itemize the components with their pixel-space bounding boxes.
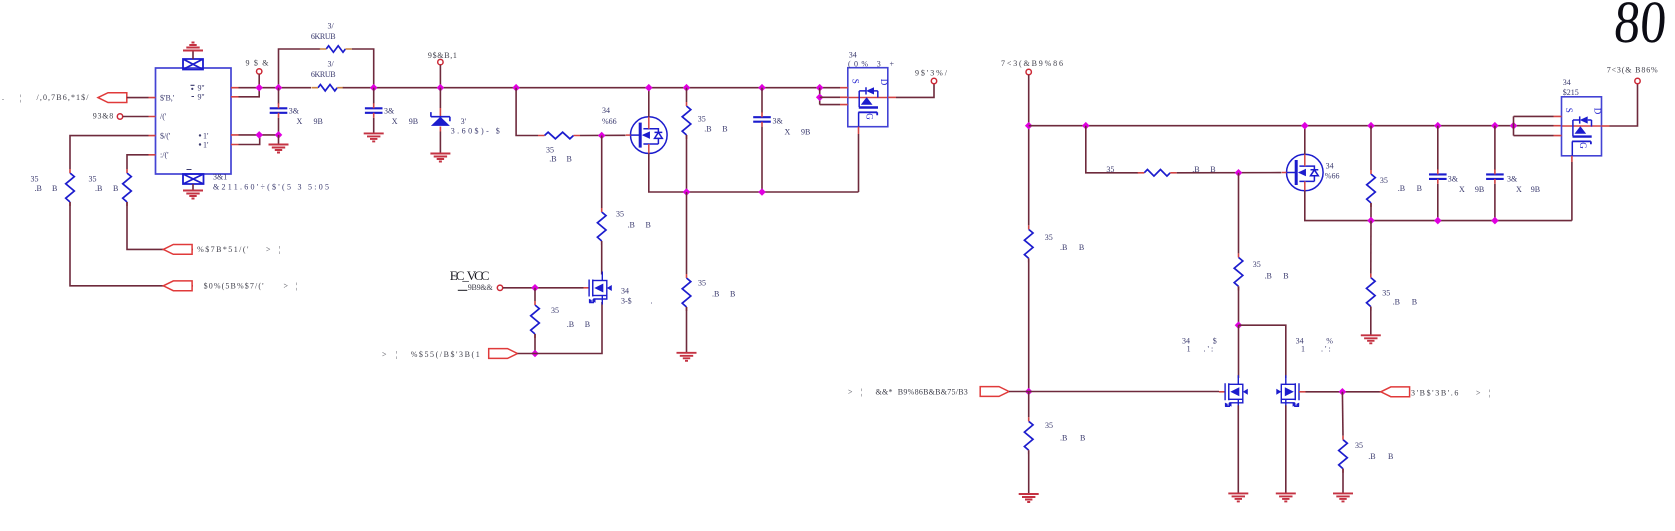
junction: [1367, 122, 1375, 130]
wire gate node down: [1238, 173, 1240, 254]
resistor R1: [66, 173, 75, 202]
MOSFET Q6 (small): [1276, 375, 1299, 408]
ground: [1276, 493, 1296, 501]
svg-text:B: B: [1079, 243, 1084, 252]
svg-text:34: 34: [621, 287, 629, 296]
power MOSFET Q2 (pack): [848, 68, 889, 127]
resistor R11: [1234, 257, 1243, 286]
junction: [1235, 169, 1243, 177]
wire U1 pin row: [239, 134, 279, 136]
svg-text:B9%86B&B&75/B3: B9%86B&B&75/B3: [898, 388, 968, 397]
svg-text:3': 3': [461, 117, 467, 126]
junction: [255, 84, 263, 92]
svg-text:35: 35: [698, 279, 706, 288]
svg-text:B: B: [567, 155, 572, 164]
svg-text:.B: .B: [1265, 271, 1272, 280]
svg-text:¦: ¦: [1489, 389, 1491, 398]
wire D1 to ground: [439, 132, 441, 154]
svg-text:&&*: &&*: [876, 388, 893, 397]
Q2 out pin stub: [888, 96, 896, 98]
svg-text:X: X: [392, 117, 398, 126]
wire Q7 S pin3: [1514, 135, 1554, 137]
wire U1 pin row join: [239, 135, 260, 145]
port arrow (output): [163, 281, 192, 291]
svg-text:1': 1': [203, 140, 209, 149]
wire Q2 S pin3: [820, 104, 840, 106]
resistor R5: [682, 106, 691, 135]
junction: [1367, 217, 1375, 225]
svg-text:.B: .B: [628, 221, 635, 230]
svg-text:93&8: 93&8: [93, 112, 114, 121]
ground: [1361, 335, 1381, 343]
wire R2 to port: [127, 202, 193, 249]
svg-text:3&: 3&: [1448, 175, 1459, 184]
wire Q2 S pin2: [820, 96, 840, 98]
svg-text:35: 35: [1045, 233, 1053, 242]
Q5 gate stub: [1219, 391, 1225, 393]
svg-text:35: 35: [1355, 441, 1363, 450]
svg-text:$0%(5B%$7/(': $0%(5B%$7/(': [204, 282, 265, 291]
junction: [645, 84, 653, 92]
svg-text:/(': /(': [160, 112, 167, 121]
wire to R13: [1370, 221, 1372, 274]
junction: [758, 188, 766, 196]
resistor (series on rail): [318, 85, 337, 91]
resistor R7: [682, 278, 691, 307]
wire to R6: [534, 288, 536, 301]
ground: [1228, 493, 1248, 501]
junction: [1510, 122, 1518, 130]
IC U1 body: [156, 68, 232, 174]
svg-text::/(': :/(': [160, 151, 169, 160]
junction: [1235, 321, 1243, 329]
resistor R10: [1024, 421, 1033, 450]
svg-text:9B: 9B: [409, 117, 418, 126]
power MOSFET Q7 (pack): [1562, 97, 1603, 156]
IC U1 left pin stubs: [149, 98, 156, 155]
wire terminal drop: [439, 65, 441, 88]
junction: [275, 84, 283, 92]
wire Q1 source rail: [649, 153, 859, 192]
wire U1 bottom to ground: [192, 184, 194, 191]
svg-text:X: X: [785, 128, 791, 137]
wire net drop: [1028, 75, 1030, 226]
wire R6 down: [534, 334, 536, 354]
wire to Q6 drain: [1239, 325, 1286, 378]
wire loop down: [352, 49, 374, 88]
svg-text:>: >: [382, 350, 387, 359]
port arrow (input): [489, 349, 518, 359]
svg-text:.B: .B: [35, 184, 42, 193]
svg-text:%66: %66: [1325, 172, 1340, 181]
svg-text:34: 34: [1326, 161, 1334, 170]
junction: [255, 131, 263, 139]
svg-text:34: 34: [602, 106, 610, 115]
wire R11 down: [1238, 286, 1240, 325]
svg-text:>: >: [284, 282, 289, 291]
wire rail to C5: [1494, 126, 1496, 170]
resistor R12: [1367, 174, 1376, 203]
svg-text:.B: .B: [1060, 243, 1067, 252]
junction: [683, 188, 691, 196]
wire to Q5 gate: [1029, 391, 1219, 393]
svg-text:.B: .B: [704, 125, 711, 134]
wire main rail: [343, 87, 840, 89]
power-ground (flipped): [183, 43, 203, 51]
wire C5 down: [1494, 184, 1496, 221]
wire to D1: [439, 88, 441, 108]
resistor R6: [531, 305, 540, 334]
svg-text:7<3(&B9%86: 7<3(&B9%86: [1001, 59, 1063, 68]
svg-text:9B9&&: 9B9&&: [468, 283, 494, 292]
svg-text:G: G: [1578, 142, 1588, 149]
svg-text:1: 1: [1301, 345, 1305, 354]
wire main rail right: [1029, 125, 1554, 127]
wire R4 to Q3 drain: [601, 241, 603, 275]
svg-text:S: S: [1564, 108, 1574, 113]
svg-text:G: G: [864, 113, 874, 120]
svg-text:3&: 3&: [289, 107, 300, 116]
wire C3 down: [761, 127, 763, 192]
wire Q6 source to ground: [1285, 405, 1287, 493]
Q2 mid pin row (red): [848, 97, 888, 99]
svg-text:9B: 9B: [801, 128, 810, 137]
MOSFET Q1: [631, 117, 668, 154]
wire R9 to Q4 gate: [1177, 172, 1282, 174]
Q7 gate stub: [1571, 156, 1573, 162]
svg-text:34: 34: [1563, 78, 1571, 87]
svg-text:35: 35: [1253, 260, 1261, 269]
resistor R8: [1024, 229, 1033, 258]
wire rail to R5: [686, 88, 688, 102]
wire rail to R3: [516, 88, 538, 136]
svg-text:.B: .B: [1368, 452, 1375, 461]
junction: [1491, 122, 1499, 130]
junction: [512, 84, 520, 92]
terminal 93&8: [117, 114, 122, 119]
wire Q7 drain out: [1610, 84, 1638, 126]
svg-text:>: >: [266, 245, 271, 254]
svg-text:1: 1: [1187, 345, 1191, 354]
wire C4 down: [1437, 184, 1439, 221]
terminal 9$'3%/: [931, 78, 936, 83]
wire to ground: [278, 135, 280, 145]
wire R14 to ground: [1342, 469, 1344, 494]
MOSFET Q3 (small): [589, 272, 612, 305]
svg-text:D: D: [879, 79, 889, 86]
resistor R14: [1339, 440, 1348, 469]
wire R7 to ground: [686, 307, 688, 353]
wire main rail: [239, 87, 312, 89]
svg-text:.: .: [2, 93, 4, 102]
svg-text:9B: 9B: [314, 117, 323, 126]
wire U1 pin2 jog to rail: [239, 88, 260, 97]
underline mark: [458, 289, 468, 291]
junction: [1434, 122, 1442, 130]
svg-text:$: $: [1213, 337, 1217, 346]
no-connect box below U1: [183, 174, 204, 184]
IC U1 right pin stubs: [231, 88, 239, 145]
svg-text:3&: 3&: [384, 107, 395, 116]
svg-text:35: 35: [1106, 165, 1114, 174]
wire Q5 source to ground: [1237, 405, 1239, 493]
svg-text:¦: ¦: [279, 245, 281, 254]
wire R10 to ground: [1028, 450, 1030, 494]
svg-text:D: D: [1593, 108, 1603, 115]
svg-text:35: 35: [1380, 176, 1388, 185]
svg-text:¦: ¦: [396, 350, 398, 359]
ground: [430, 154, 450, 162]
junction: [1339, 388, 1347, 396]
wire Q7 source tie: [1513, 116, 1515, 135]
svg-text:3&: 3&: [773, 117, 784, 126]
svg-text:B: B: [1412, 298, 1417, 307]
capacitor C3: [753, 117, 771, 122]
wire U1 pin4 to R2: [127, 155, 149, 169]
svg-text:9$&: 9$&: [246, 58, 270, 67]
resistor R13: [1367, 278, 1376, 307]
wire rail to C3: [761, 88, 763, 113]
wire Q7 S pin1: [1514, 115, 1554, 117]
D1 anode lead tip: [439, 108, 441, 132]
wire R12 down: [1370, 203, 1372, 221]
port arrow (input): [98, 93, 127, 103]
wire Q7 gate down: [1571, 162, 1573, 221]
wire port to node: [1009, 391, 1029, 393]
svg-text:¦: ¦: [296, 282, 298, 291]
wire Q2 drain out: [896, 84, 934, 98]
Q2 gate stub: [858, 127, 860, 134]
wire loop to top resistor: [279, 49, 321, 88]
junction: [816, 84, 824, 92]
svg-text:B: B: [1080, 434, 1085, 443]
wire R5 down: [686, 135, 688, 192]
resistor R9: [1144, 170, 1170, 177]
svg-text:B: B: [646, 221, 651, 230]
svg-text:6KRUB: 6KRUB: [311, 32, 336, 41]
svg-text:3&: 3&: [1507, 175, 1518, 184]
svg-text:$215: $215: [1563, 88, 1579, 97]
wire R13 to ground: [1370, 307, 1372, 336]
svg-text:.: .: [651, 296, 653, 305]
svg-text:.B: .B: [1398, 184, 1405, 193]
wire Q2 gate down: [858, 134, 860, 192]
svg-text:%$7B*51/(': %$7B*51/(': [197, 245, 249, 254]
U1 pin number marks: [187, 85, 195, 169]
svg-text:¦: ¦: [861, 388, 863, 397]
wire EC_VCC to Q3 gate: [503, 287, 584, 289]
ground: [269, 145, 289, 153]
capacitor C1: [270, 108, 288, 113]
svg-text:35: 35: [616, 210, 624, 219]
wire terminal drop: [258, 74, 260, 87]
junction: [1491, 217, 1499, 225]
svg-text:35: 35: [89, 175, 97, 184]
junction: [1025, 122, 1033, 130]
svg-text:.B: .B: [95, 184, 102, 193]
wire rail to Q1 drain: [648, 88, 650, 117]
svg-text:9'': 9'': [198, 83, 205, 92]
svg-text:35: 35: [1382, 289, 1390, 298]
ground: [1019, 494, 1039, 502]
svg-text:35: 35: [31, 175, 39, 184]
Q7 left pin stubs: [1554, 116, 1562, 135]
wire rail to C4: [1437, 126, 1439, 170]
svg-text:$/(': $/(': [160, 131, 171, 140]
junction: [370, 84, 378, 92]
svg-text:B: B: [1417, 184, 1422, 193]
svg-text:B: B: [1388, 452, 1393, 461]
wire R7 top: [686, 192, 688, 274]
svg-text:35: 35: [698, 115, 706, 124]
Q2 left pin stubs: [840, 88, 848, 105]
wire port to Q3 source: [518, 302, 603, 354]
svg-text:X: X: [1516, 185, 1522, 194]
svg-text:$'B,': $'B,': [160, 93, 175, 102]
ground: [364, 133, 384, 141]
junction: [683, 84, 691, 92]
wire C1 to gnd node: [278, 118, 280, 135]
wire to C2: [373, 88, 375, 104]
terminal EC_VCC: [497, 285, 502, 290]
wire rail to R12: [1370, 126, 1372, 170]
wire C2 to ground: [373, 118, 375, 134]
svg-text:. ' :: . ' :: [1204, 345, 1214, 354]
terminal 7<3(& B86%: [1635, 78, 1640, 83]
junction: [598, 132, 606, 140]
wire to R10: [1028, 392, 1030, 418]
zener diode D1: [431, 112, 450, 126]
junction: [816, 94, 824, 102]
wire U1 top to ground: [192, 51, 194, 60]
Q3 gate stub: [584, 287, 590, 289]
junction: [1082, 122, 1090, 130]
port arrow (input): [980, 387, 1009, 397]
terminal 7<3(&B9%86: [1026, 69, 1031, 74]
svg-text:35: 35: [546, 145, 554, 154]
resistor R3: [545, 132, 574, 139]
svg-text:3/: 3/: [328, 22, 335, 31]
svg-text:X: X: [1459, 185, 1465, 194]
wire U1 pin3 to R1: [70, 136, 149, 169]
wire Q6 gate to port: [1306, 391, 1381, 393]
svg-text:9B: 9B: [1475, 185, 1484, 194]
MOSFET Q4: [1287, 154, 1324, 191]
wire to Q5 drain: [1238, 325, 1240, 378]
junction: [275, 131, 283, 139]
junction: [531, 284, 539, 292]
MOSFET Q5 (small): [1225, 375, 1248, 408]
wire terminal to U1 pin2: [123, 116, 149, 118]
svg-text:X: X: [297, 117, 303, 126]
svg-text:3&1: 3&1: [213, 173, 227, 182]
svg-text:.B: .B: [549, 155, 556, 164]
wire to C1: [278, 88, 280, 104]
wire port to U1 pin1: [127, 97, 149, 99]
ground: [677, 353, 697, 361]
wire to R14: [1341, 392, 1344, 436]
svg-text:%$55(/B$'3B(1: %$55(/B$'3B(1: [411, 350, 480, 359]
svg-text:B: B: [585, 320, 590, 329]
svg-text:80: 80: [1612, 0, 1669, 55]
svg-text:%66: %66: [602, 117, 617, 126]
svg-text:B: B: [1283, 271, 1288, 280]
port arrow (output): [163, 245, 192, 255]
svg-text:7<3(& B86%: 7<3(& B86%: [1607, 66, 1658, 75]
wire gate node down: [601, 136, 603, 209]
resistor R4: [597, 212, 606, 241]
svg-text:S: S: [850, 79, 860, 84]
svg-text:.B: .B: [567, 320, 574, 329]
junction: [1301, 122, 1309, 130]
wire R8 down: [1028, 258, 1030, 391]
junction: [1434, 217, 1442, 225]
junction: [437, 84, 445, 92]
svg-text:¦: ¦: [20, 93, 22, 102]
port arrow (output): [1381, 387, 1410, 397]
capacitor C5: [1486, 174, 1504, 179]
svg-text:1': 1': [203, 131, 209, 140]
resistor R2: [123, 173, 132, 202]
svg-text:.B: .B: [712, 290, 719, 299]
ground: [183, 191, 203, 199]
junction: [758, 84, 766, 92]
wire rail to Q4 drain: [1304, 126, 1306, 155]
svg-text:>: >: [1476, 389, 1481, 398]
svg-text:/,0,7B6,*1$/: /,0,7B6,*1$/: [37, 93, 90, 102]
svg-text:B: B: [52, 184, 57, 193]
Q7 out pin stub: [1602, 125, 1610, 127]
svg-text:EC_VCC: EC_VCC: [450, 268, 490, 283]
svg-text:.B: .B: [1060, 434, 1067, 443]
wire rail to R9: [1086, 126, 1138, 173]
wire Q4 source rail: [1305, 191, 1572, 221]
svg-text:3-$: 3-$: [621, 296, 632, 305]
wire R3 to Q1 gate: [580, 134, 626, 136]
capacitor C2: [365, 108, 383, 113]
svg-text:>: >: [848, 388, 853, 397]
svg-text:9$&B,1: 9$&B,1: [428, 51, 457, 60]
svg-text:6KRUB: 6KRUB: [311, 70, 336, 79]
svg-text:3.60$)- $: 3.60$)- $: [451, 127, 500, 136]
junction: [531, 350, 539, 358]
ground: [1333, 493, 1353, 501]
svg-text:.B: .B: [1393, 298, 1400, 307]
svg-text:9B: 9B: [1531, 185, 1540, 194]
terminal 9$&: [257, 69, 262, 74]
svg-text:35: 35: [551, 306, 559, 315]
svg-text:B: B: [730, 290, 735, 299]
terminal 9$&B,1: [438, 59, 443, 64]
capacitor C4: [1429, 174, 1447, 179]
no-connect box above U1: [183, 59, 203, 70]
wire Q2 source tie: [819, 88, 821, 105]
svg-text:3/: 3/: [328, 59, 335, 68]
svg-text:B: B: [722, 125, 727, 134]
Q6 gate stub: [1299, 391, 1306, 393]
Q7 mid pin row (red): [1562, 125, 1602, 127]
svg-text:35: 35: [1045, 421, 1053, 430]
svg-text:B: B: [113, 184, 118, 193]
resistor (top loop): [326, 46, 345, 52]
svg-text:9'': 9'': [198, 93, 205, 102]
wire R1 to port: [70, 202, 193, 286]
svg-text:. ' :: . ' :: [1321, 345, 1331, 354]
junction: [1025, 388, 1033, 396]
Q7 mid pin stub: [1554, 125, 1562, 127]
